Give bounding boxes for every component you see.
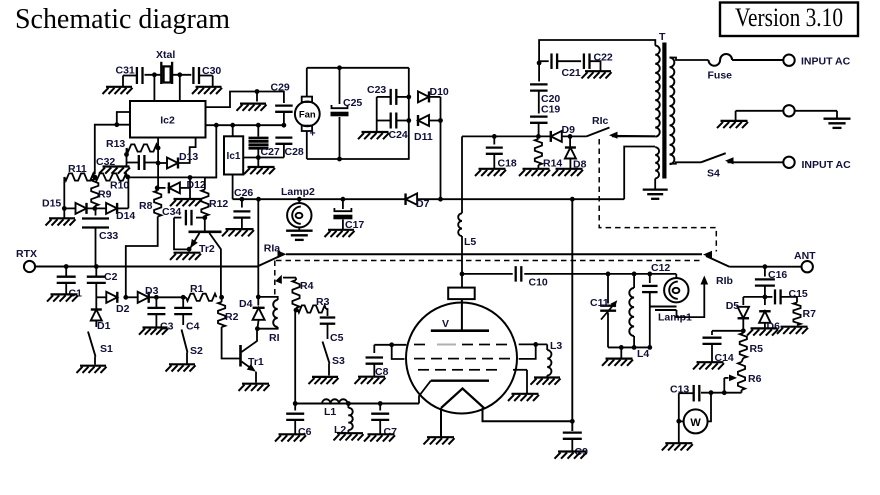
svg-text:Version 3.10: Version 3.10	[735, 3, 843, 32]
relay contact RIb	[703, 251, 729, 267]
wire gnd stub	[256, 92, 258, 102]
svg-text:C23: C23	[367, 84, 386, 96]
motor Fan	[295, 68, 320, 159]
svg-text:C12: C12	[651, 262, 670, 274]
wire RIb lamp arm	[677, 276, 709, 318]
ground heater	[424, 437, 455, 444]
relay contact RIa	[258, 251, 286, 267]
lamp Lamp2	[287, 197, 311, 228]
svg-text:C11: C11	[590, 297, 609, 309]
svg-text:RI: RI	[269, 332, 280, 344]
capacitor C19	[530, 91, 548, 137]
node l4-bot	[632, 345, 637, 350]
node d12-gnd	[188, 175, 193, 180]
node b+corner	[570, 197, 575, 202]
diode D10	[418, 91, 441, 102]
wire R6 bottom	[701, 392, 742, 394]
capacitor C16	[755, 267, 775, 297]
ground C18	[475, 169, 506, 176]
node c10-tap	[460, 272, 465, 277]
svg-text:INPUT AC: INPUT AC	[801, 56, 851, 68]
svg-text:D13: D13	[179, 151, 198, 163]
node r11-r10	[92, 175, 97, 180]
svg-text:R12: R12	[209, 198, 228, 210]
wire d2d3	[126, 296, 138, 298]
svg-text:C24: C24	[389, 129, 408, 141]
diode D14	[95, 203, 129, 214]
diode D7	[406, 193, 418, 205]
ground C13	[662, 443, 693, 450]
svg-text:C13: C13	[670, 384, 689, 396]
wire tank gnd stub	[620, 347, 622, 358]
inductor L2	[348, 404, 352, 433]
svg-text:R9: R9	[98, 189, 112, 201]
svg-text:C15: C15	[789, 288, 808, 300]
wire C8 to grids	[374, 342, 406, 359]
svg-text:C28: C28	[285, 146, 304, 158]
title text	[15, 3, 230, 35]
ground C26	[222, 229, 254, 236]
svg-text:C10: C10	[529, 277, 548, 289]
node d7-out	[438, 197, 443, 202]
svg-text:V: V	[442, 318, 449, 330]
svg-text:S1: S1	[100, 343, 113, 355]
wire fanbox right	[408, 68, 410, 159]
node d12-left	[155, 186, 160, 191]
node c24-junc	[406, 118, 411, 123]
wire C10 left	[462, 273, 513, 275]
resistor R5	[740, 331, 747, 358]
node Ic2 pin junction	[114, 122, 119, 127]
resistor R7	[793, 303, 800, 326]
wire d12 gnd vert	[189, 178, 191, 199]
svg-text:W: W	[690, 417, 701, 429]
ground C7	[364, 434, 395, 441]
ground C6	[275, 434, 306, 441]
node c26-a	[240, 197, 245, 202]
svg-text:C26: C26	[234, 187, 253, 199]
ground S1	[77, 366, 107, 373]
svg-text:RTX: RTX	[16, 248, 37, 260]
svg-text:R10: R10	[110, 180, 129, 192]
node c16-top	[763, 264, 768, 269]
node r9-bottom	[92, 206, 97, 211]
capacitor C31	[123, 67, 143, 87]
ground C1	[47, 294, 78, 301]
node tr2-e-gnd	[187, 247, 192, 252]
svg-text:R7: R7	[803, 308, 817, 320]
resistor R1	[186, 294, 217, 301]
node c2-top	[94, 264, 99, 269]
switch S4	[701, 153, 783, 164]
svg-text:C16: C16	[768, 269, 787, 281]
capacitor C2	[87, 267, 106, 298]
wire grid ties right	[519, 342, 548, 359]
inductor L5	[458, 213, 462, 236]
wire earth link	[795, 111, 837, 119]
wire chassis link	[736, 111, 784, 121]
svg-text:T: T	[659, 31, 666, 43]
svg-text:+: +	[310, 128, 316, 140]
node c25-top	[337, 65, 342, 70]
resistor R3	[298, 305, 327, 312]
wire fan box top	[307, 67, 409, 69]
diode D3	[138, 292, 149, 303]
svg-text:R3: R3	[316, 296, 330, 308]
wire R4 to bus	[294, 310, 296, 403]
node xtal-right	[177, 72, 182, 77]
wire C10 right	[524, 273, 676, 275]
node r13-right	[156, 146, 161, 151]
node C27 gnd	[256, 155, 261, 160]
node c3-top	[154, 295, 159, 300]
node rIa-riser-top	[256, 197, 261, 202]
capacitor C24	[377, 113, 409, 129]
node d2-d3	[123, 295, 128, 300]
node c6-top	[293, 401, 298, 406]
svg-text:Lamp2: Lamp2	[281, 186, 315, 198]
capacitor C3	[147, 297, 165, 326]
svg-text:C5: C5	[330, 332, 344, 344]
terminal earth	[783, 105, 794, 116]
terminal INPUT AC 1	[783, 55, 794, 66]
wire xfmr bottom	[654, 178, 656, 189]
wire Ic2 left pin1	[117, 112, 130, 125]
wire R13 left down	[126, 148, 128, 166]
wire C34 left to emitter	[174, 218, 188, 250]
terminal RTX	[24, 261, 35, 272]
svg-text:C34: C34	[162, 206, 181, 218]
ground Tr1	[239, 384, 270, 391]
ground C27-C28	[244, 167, 275, 174]
svg-text:L5: L5	[464, 236, 476, 248]
node d11-out	[438, 118, 443, 123]
wire R4 arm	[275, 275, 296, 284]
capacitor C9	[563, 433, 582, 451]
tube plate	[431, 329, 489, 332]
node c4-top	[181, 295, 186, 300]
capacitor C25	[331, 68, 349, 159]
svg-text:D1: D1	[97, 320, 111, 332]
diode D2	[106, 292, 117, 303]
node l4-top	[632, 272, 637, 277]
node c18-top	[492, 134, 497, 139]
wire C23-C24 gnd	[376, 97, 378, 132]
svg-text:D10: D10	[430, 86, 449, 98]
node r1-r2	[219, 295, 224, 300]
capacitor C28	[275, 138, 292, 158]
inductor L3	[547, 344, 551, 377]
svg-text:R5: R5	[750, 343, 764, 355]
wire Ic2 pin to R13 vert	[157, 138, 159, 191]
tube heater	[441, 389, 484, 409]
svg-text:R13: R13	[106, 138, 125, 150]
svg-text:ANT: ANT	[794, 250, 816, 262]
ground R11-D15	[46, 218, 76, 225]
svg-text:R4: R4	[300, 280, 314, 292]
ground C8	[355, 377, 386, 384]
tube grid2	[414, 358, 510, 360]
node c12-top	[647, 272, 652, 277]
capacitor C13	[679, 385, 700, 443]
tube top cap	[448, 288, 475, 331]
wire R11 left leg	[63, 177, 65, 218]
resistor R14	[535, 139, 542, 168]
svg-text:R11: R11	[68, 163, 87, 175]
node tr2-base	[202, 215, 207, 220]
svg-text:C33: C33	[99, 230, 118, 242]
svg-text:R2: R2	[225, 311, 239, 323]
wire Ic2 right bus	[206, 124, 284, 126]
wire fuse to AC1	[732, 59, 783, 61]
node c17-top	[341, 197, 346, 202]
wire HV bus	[462, 135, 550, 137]
svg-text:Fan: Fan	[299, 110, 316, 121]
earth Lamp2	[286, 227, 313, 240]
svg-text:S3: S3	[332, 355, 345, 367]
svg-text:Ic1: Ic1	[227, 151, 241, 162]
node d13-left	[156, 161, 161, 166]
ground C32	[99, 167, 130, 174]
svg-text:C29: C29	[271, 82, 290, 94]
ground S2	[166, 364, 196, 371]
resistor R11	[64, 173, 94, 180]
wire R2 to Tr1 base	[222, 327, 240, 359]
transistor Tr1	[241, 329, 258, 383]
node c12-bot	[647, 345, 652, 350]
wire L5 riser	[461, 136, 463, 213]
node l2-top	[346, 401, 351, 406]
diode D6	[759, 297, 771, 328]
tube grid1	[414, 344, 507, 346]
capacitor C20	[530, 63, 548, 91]
switch S3	[323, 342, 330, 376]
ground R7	[777, 327, 808, 334]
capacitor C34	[174, 210, 205, 226]
capacitor C17	[333, 199, 352, 229]
tube cathode	[431, 380, 489, 382]
wire xtal pins to Ic2	[154, 75, 179, 101]
svg-text:S4: S4	[707, 167, 720, 179]
node c1-top	[64, 264, 69, 269]
svg-text:D5: D5	[726, 300, 740, 312]
node bus-a	[214, 123, 219, 128]
transformer primary lower	[655, 147, 659, 179]
ground C23-C24	[358, 132, 389, 139]
svg-text:Fuse: Fuse	[708, 70, 733, 82]
resistor R9	[91, 179, 98, 206]
capacitor C32	[127, 155, 159, 170]
ground C22	[582, 71, 612, 78]
svg-text:RIc: RIc	[592, 115, 609, 127]
node gnd-stub	[255, 89, 260, 94]
node c16-bot	[763, 295, 768, 300]
svg-text:R1: R1	[190, 283, 204, 295]
diode D1	[91, 297, 102, 327]
dashed relay link b	[274, 261, 276, 296]
transformer primary upper	[655, 46, 660, 137]
wire R10 down to D14	[127, 177, 129, 208]
capacitor C8	[366, 345, 384, 376]
meter W	[679, 393, 711, 434]
ground C31	[103, 87, 133, 94]
node xtal-left	[152, 72, 157, 77]
switch S1	[88, 332, 96, 365]
capacitor C26	[233, 199, 250, 228]
ground chassis	[717, 121, 748, 128]
wire fan box bottom	[307, 158, 410, 160]
svg-text:Xtal: Xtal	[156, 49, 175, 61]
node tank-gnd	[619, 345, 624, 350]
svg-text:D14: D14	[116, 210, 135, 222]
capacitor C5	[320, 309, 336, 339]
wire Ic1 right pin	[243, 157, 284, 159]
node bus-b	[230, 123, 235, 128]
wire lamp1 bottom	[650, 307, 677, 348]
ground L3	[531, 378, 561, 385]
relay coil RI	[257, 297, 277, 329]
capacitor C14	[703, 331, 744, 362]
lamp Lamp1	[664, 274, 688, 303]
wire D3 to R1	[149, 296, 186, 298]
wire sec bottom	[670, 162, 702, 163]
svg-text:C31: C31	[116, 65, 135, 77]
tube V envelope	[406, 303, 517, 414]
ground C3	[139, 328, 168, 335]
capacitor C18	[486, 136, 503, 168]
ground L2	[334, 433, 364, 440]
wire heater right leg	[483, 408, 573, 421]
svg-text:D7: D7	[416, 198, 430, 210]
capacitor C10	[516, 266, 522, 282]
capacitor C7	[371, 404, 389, 434]
capacitor C11 variable	[600, 274, 617, 348]
svg-text:L4: L4	[637, 348, 649, 360]
diode D5	[738, 297, 765, 331]
svg-text:RIb: RIb	[716, 275, 733, 287]
resistor R13	[127, 144, 159, 151]
terminal INPUT AC 2	[783, 157, 794, 168]
fuse	[709, 54, 733, 66]
diode D13	[158, 138, 196, 169]
ground S3	[309, 377, 339, 384]
op-amp Ic1 box	[224, 136, 243, 174]
node w-left	[676, 419, 681, 424]
svg-text:C21: C21	[562, 67, 581, 79]
wire B+ down	[571, 199, 573, 431]
wire plate line	[286, 253, 702, 255]
node d4-top	[256, 295, 261, 300]
ground C9	[555, 452, 587, 459]
wire Ic1 top	[232, 125, 234, 136]
transistor Tr2	[189, 218, 222, 298]
node r13-c32	[124, 152, 129, 157]
resistor R4	[292, 278, 299, 311]
svg-text:C27: C27	[261, 146, 280, 158]
resistor R10	[95, 173, 128, 180]
capacitor C23	[377, 89, 409, 105]
svg-text:D11: D11	[414, 131, 433, 143]
capacitor C12	[642, 274, 658, 307]
svg-text:C22: C22	[594, 51, 613, 63]
relay contact RIc	[587, 128, 656, 139]
capacitor C27	[249, 125, 269, 157]
diode D12	[157, 182, 190, 193]
svg-text:L1: L1	[324, 406, 336, 418]
wire ANT line	[729, 266, 801, 268]
node c25-bot	[337, 157, 342, 162]
wire Ic2 right pin C29	[206, 92, 284, 108]
wire main bus	[233, 198, 625, 200]
capacitor C6	[286, 404, 304, 434]
node bus-c	[256, 123, 261, 128]
node c23-junc	[406, 95, 411, 100]
svg-text:C30: C30	[202, 65, 221, 77]
earth symbol	[824, 119, 851, 128]
wire R10-R12 horiz	[128, 176, 217, 178]
resistor R6 pot	[738, 358, 745, 393]
ground D6	[747, 328, 778, 335]
resistor R12	[201, 177, 208, 217]
resistor R8	[154, 191, 161, 217]
capacitor C22	[584, 53, 601, 70]
node c7-top	[378, 401, 383, 406]
wire grid3 gnd	[513, 370, 527, 394]
svg-text:R8: R8	[139, 200, 153, 212]
diode D4	[253, 297, 265, 329]
node d5-bot	[741, 328, 746, 333]
transformer tap wire	[612, 135, 655, 137]
wire to R12	[205, 125, 216, 177]
node c11-top	[606, 272, 611, 277]
wire bus to transformer	[624, 147, 655, 200]
svg-text:INPUT AC: INPUT AC	[802, 159, 852, 171]
wire R6 wiper	[724, 375, 737, 393]
node d4-bot	[255, 326, 260, 331]
ground tank	[602, 359, 633, 366]
svg-text:C25: C25	[343, 97, 362, 109]
diode D9	[551, 131, 587, 142]
diode D15	[64, 203, 95, 214]
svg-text:D15: D15	[42, 198, 61, 210]
transformer T core	[662, 43, 666, 179]
ground D8	[552, 169, 583, 176]
node bus-d	[282, 123, 287, 128]
ground C30	[192, 87, 222, 94]
svg-text:S2: S2	[190, 345, 203, 357]
ground C17	[325, 230, 355, 237]
tube cathode tap	[419, 381, 431, 404]
capacitor C29	[275, 106, 293, 112]
inductor L4	[629, 274, 634, 348]
switch S2	[182, 330, 188, 364]
op-amp Ic2 box	[130, 101, 206, 138]
dashed relay link c	[599, 139, 716, 252]
wire RIa riser	[257, 199, 259, 297]
svg-text:R6: R6	[748, 373, 762, 385]
terminal ANT	[802, 261, 813, 272]
tube grid3	[418, 369, 497, 371]
ground D12	[170, 199, 201, 206]
ground grid3	[508, 394, 539, 401]
inductor L1	[322, 399, 348, 403]
wire R8 to D2-D3	[126, 217, 158, 298]
svg-text:L3: L3	[550, 340, 562, 352]
capacitor C33	[82, 208, 109, 266]
transformer secondary	[670, 58, 675, 165]
wire HV top rail	[539, 40, 655, 63]
wire L5 to tube	[461, 236, 463, 288]
